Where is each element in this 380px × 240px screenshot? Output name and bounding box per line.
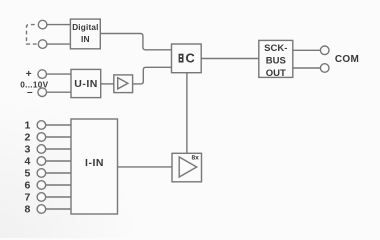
- terminal circle U minus: [38, 88, 47, 97]
- wire SCK-BUS to COM1: [293, 49, 321, 51]
- wire I-IN to amp 8x: [118, 166, 173, 168]
- svg-text:IN: IN: [81, 34, 90, 44]
- terminal circle I2: [37, 133, 46, 142]
- wire Digital IN to uC: [100, 34, 171, 50]
- wire SCK-BUS to COM2: [293, 67, 321, 69]
- wire U-IN to amp: [101, 83, 114, 85]
- terminal circle COM2: [320, 64, 329, 73]
- box amplifier 8x: [172, 153, 202, 182]
- wire I4: [46, 160, 71, 162]
- wire uC down to amp 8x: [186, 73, 188, 154]
- svg-text:–: –: [27, 87, 33, 98]
- svg-text:BUS: BUS: [266, 56, 286, 67]
- terminal circle I7: [37, 193, 46, 202]
- box I-IN: [71, 119, 118, 214]
- label uC (tofu glyph): [179, 54, 184, 63]
- wire U minus to U-IN: [47, 91, 72, 93]
- svg-text:Digital: Digital: [72, 23, 98, 32]
- svg-text:SCK-: SCK-: [264, 43, 287, 54]
- terminal circle digital 1: [38, 20, 47, 29]
- wire digital1 to Digital IN: [47, 24, 71, 26]
- terminal circle digital 2: [38, 40, 47, 49]
- svg-text:8x: 8x: [192, 155, 200, 162]
- box SCK-BUS OUT: [259, 40, 293, 77]
- svg-text:I-IN: I-IN: [85, 157, 104, 169]
- wire U plus to U-IN: [47, 73, 72, 75]
- box uC: [172, 44, 202, 73]
- svg-text:U-IN: U-IN: [74, 78, 98, 90]
- terminal circle COM1: [320, 46, 329, 55]
- terminal circle I8: [37, 205, 46, 214]
- wire amp to uC: [133, 67, 172, 84]
- triangle amplifier A1: [118, 78, 128, 89]
- dashed link (switch bracket): [27, 25, 38, 44]
- svg-text:+: +: [26, 69, 32, 80]
- box U-IN: [71, 69, 101, 97]
- wire I1: [46, 124, 71, 126]
- terminal circle I6: [37, 181, 46, 190]
- svg-text:2: 2: [24, 132, 30, 144]
- svg-text:4: 4: [24, 156, 30, 168]
- svg-text:OUT: OUT: [266, 68, 286, 79]
- terminal circle U plus: [38, 70, 47, 79]
- wire I7: [46, 196, 71, 198]
- triangle amplifier 8x: [179, 157, 197, 177]
- svg-text:C: C: [186, 51, 195, 66]
- svg-text:6: 6: [24, 180, 30, 192]
- wire I3: [46, 148, 71, 150]
- svg-text:3: 3: [24, 144, 30, 156]
- wire I6: [46, 184, 71, 186]
- box amplifier A1: [114, 75, 133, 93]
- wire I5: [46, 172, 71, 174]
- terminal circle I1: [37, 121, 46, 130]
- box Digital IN: [70, 19, 100, 49]
- terminal circle I5: [37, 169, 46, 178]
- wire I2: [46, 136, 71, 138]
- svg-text:COM: COM: [335, 54, 359, 65]
- terminal circle I4: [37, 157, 46, 166]
- wire uC to SCK-BUS: [201, 58, 259, 60]
- svg-text:0...10V: 0...10V: [20, 80, 48, 89]
- svg-text:8: 8: [24, 204, 30, 216]
- terminal circle I3: [37, 145, 46, 154]
- svg-text:7: 7: [24, 192, 30, 204]
- wire digital2 to Digital IN: [47, 43, 71, 45]
- svg-text:1: 1: [24, 120, 30, 132]
- wire I8: [46, 208, 71, 210]
- svg-text:5: 5: [24, 168, 30, 180]
